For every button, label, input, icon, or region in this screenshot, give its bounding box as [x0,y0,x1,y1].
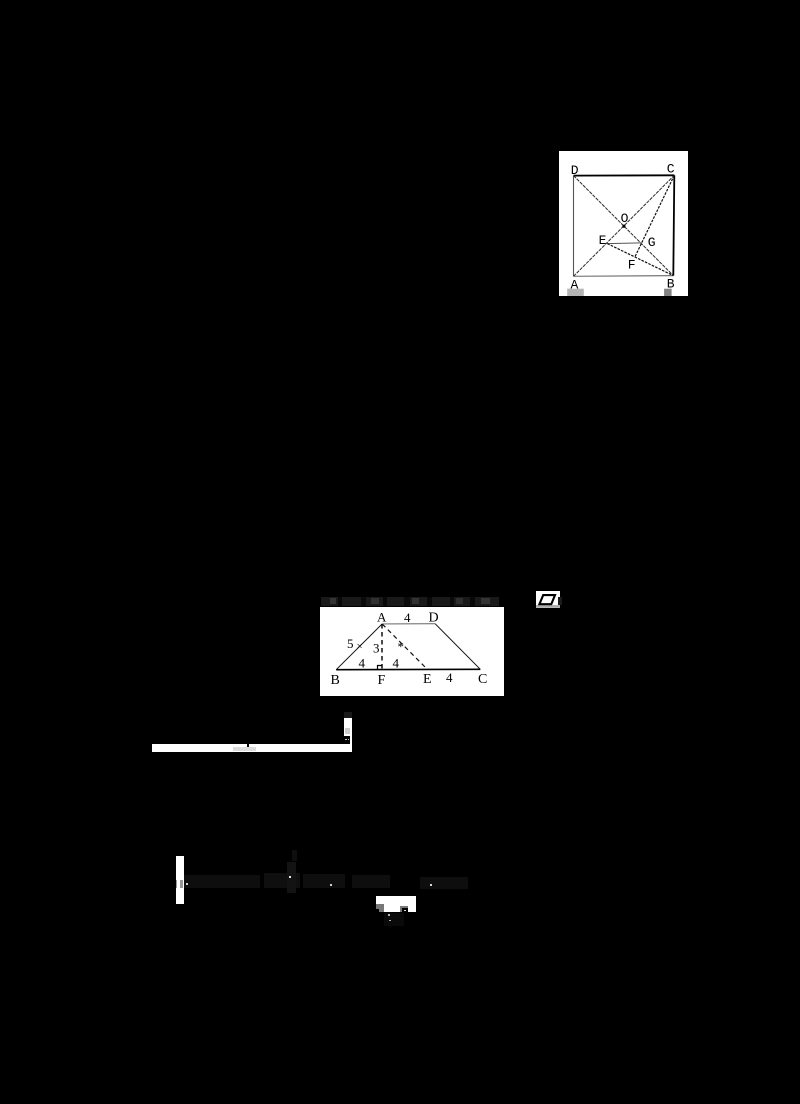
svg-text:C: C [478,672,487,687]
tall faint fraction in equation [287,862,296,893]
white speck 2 [289,876,291,878]
line E to B through F [607,244,673,276]
svg-text:4: 4 [393,656,400,671]
diagonal DB [574,176,674,276]
svg-text:E: E [423,672,432,687]
gray smudge under B [664,289,672,296]
right-angle mark at F [378,666,383,670]
side BA [336,624,382,670]
svg-text:4: 4 [446,670,453,685]
fraction gray numeral block [345,728,350,735]
square side DC (top) [574,174,675,176]
svg-text:3: 3 [373,640,380,655]
faint dark equation text line [184,875,260,888]
figure 2: trapezoid image (white box) [320,607,504,696]
dashed segment AE [382,624,427,670]
white specks in blob [345,739,346,740]
svg-text:A: A [377,610,387,625]
svg-text:4: 4 [404,610,411,625]
svg-text:C: C [667,162,675,177]
svg-text:4: 4 [359,656,366,671]
equation blank strip (white) [152,744,353,752]
side DC [435,624,480,670]
gray blob left in answer rect [376,904,384,912]
dark marks below answer rect [384,913,404,926]
faint marks above fraction bar [344,712,352,718]
square side DA (left) [573,176,575,277]
tiny black mark on strip [247,742,250,747]
dark glyph notch right of icon [558,597,562,606]
segment EG [607,242,641,245]
black corner of left gray blob [376,909,379,912]
fraction black denominator blob [344,736,350,744]
svg-text:B: B [331,673,340,688]
parallelogram icon image [536,591,560,608]
svg-text:×: × [357,641,363,653]
svg-text:D: D [429,611,439,626]
figure 1: square ABCD image (white box) [559,151,688,296]
faint dark text line above figure 2 [321,597,499,606]
fraction image: vertical white bar [344,718,352,752]
white speck in black blob [404,910,406,912]
svg-text:F: F [628,258,636,273]
fraction image 2: vertical white bar [176,856,184,904]
diagonal AC [574,175,675,276]
brighter blotches in faint line [330,598,336,604]
gray marks inside bar 2 [176,880,177,888]
gray blob right in answer rect [400,906,408,913]
black blob in answer rect [402,908,408,912]
side AD (top) [382,623,435,625]
square side AB (bottom) [574,275,674,278]
point O dot [622,225,625,228]
white speck below rect [388,914,390,916]
svg-text:*: * [398,639,405,654]
svg-text:5: 5 [347,636,354,651]
svg-text:F: F [378,673,386,688]
line C to F through G [635,175,674,256]
white speck 4 [430,884,432,886]
answer white rect [376,896,416,912]
icon gray base strip [536,605,560,608]
darker gaps in faint line [338,597,342,606]
white speck 1 [186,883,188,885]
dashed altitude AF [381,624,383,670]
svg-text:O: O [621,211,629,226]
svg-text:D: D [571,163,579,178]
light gray marks in strip [233,747,256,752]
square side CB (right) [673,175,674,275]
svg-text:E: E [599,233,607,248]
white speck 3 [330,884,332,886]
gray smudge under A [567,289,584,296]
parallelogram symbol [539,595,555,604]
svg-text:G: G [648,235,656,250]
side BC (bottom) [336,668,480,670]
